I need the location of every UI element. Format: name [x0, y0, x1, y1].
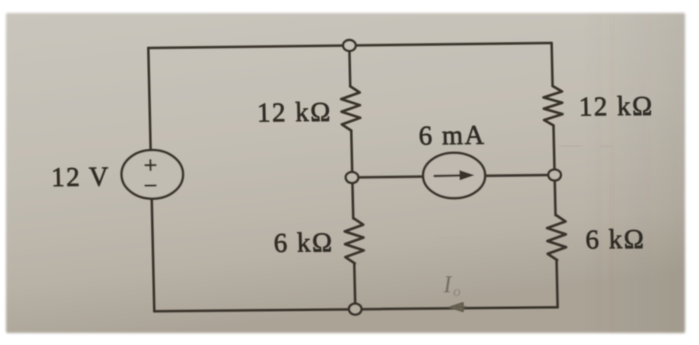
wire bottom [154, 306, 557, 312]
node center [346, 172, 359, 183]
wire right branch between node and R4 [553, 175, 556, 215]
current source I1 6mA [423, 152, 486, 198]
resistor R1 12k (middle top) [341, 86, 361, 131]
wire left bottom (source to bottom rail) [152, 199, 155, 312]
svg-text:12 V: 12 V [51, 162, 110, 193]
node bottom [349, 304, 362, 315]
Io arrow (pointing left on bottom wire) [449, 303, 466, 312]
svg-text:6 kΩ: 6 kΩ [585, 224, 646, 255]
svg-text:12 kΩ: 12 kΩ [578, 91, 653, 122]
node right-middle [548, 169, 561, 180]
faint smudge right of R4 lead [436, 237, 466, 238]
V1 minus sign [145, 184, 155, 186]
wire top [148, 43, 551, 48]
wire middle horizontal [352, 175, 554, 178]
wire left top (source to top rail) [148, 48, 150, 150]
svg-text:6 mA: 6 mA [418, 120, 485, 151]
node top [343, 40, 356, 51]
svg-text:6 kΩ: 6 kΩ [273, 227, 334, 258]
wire middle branch between node and R3 [351, 178, 354, 219]
resistor R3 6k (middle bottom) [344, 218, 364, 263]
wire right branch upper [550, 43, 553, 86]
svg-text:12 kΩ: 12 kΩ [257, 97, 332, 128]
voltage source V1 12V [121, 150, 184, 199]
wire middle branch lower [354, 263, 355, 308]
wire right branch lower [557, 260, 558, 307]
I1 arrow [434, 174, 462, 177]
resistor R2 12k (right top) [543, 86, 563, 126]
resistor R4 6k (right bottom) [547, 215, 567, 260]
wire middle branch between R1 and node [351, 131, 352, 178]
faint smudge right of R2 [560, 145, 612, 147]
wire right branch between R2 and node [553, 125, 554, 175]
wire middle branch upper [348, 46, 351, 87]
V1 plus sign [145, 160, 156, 170]
